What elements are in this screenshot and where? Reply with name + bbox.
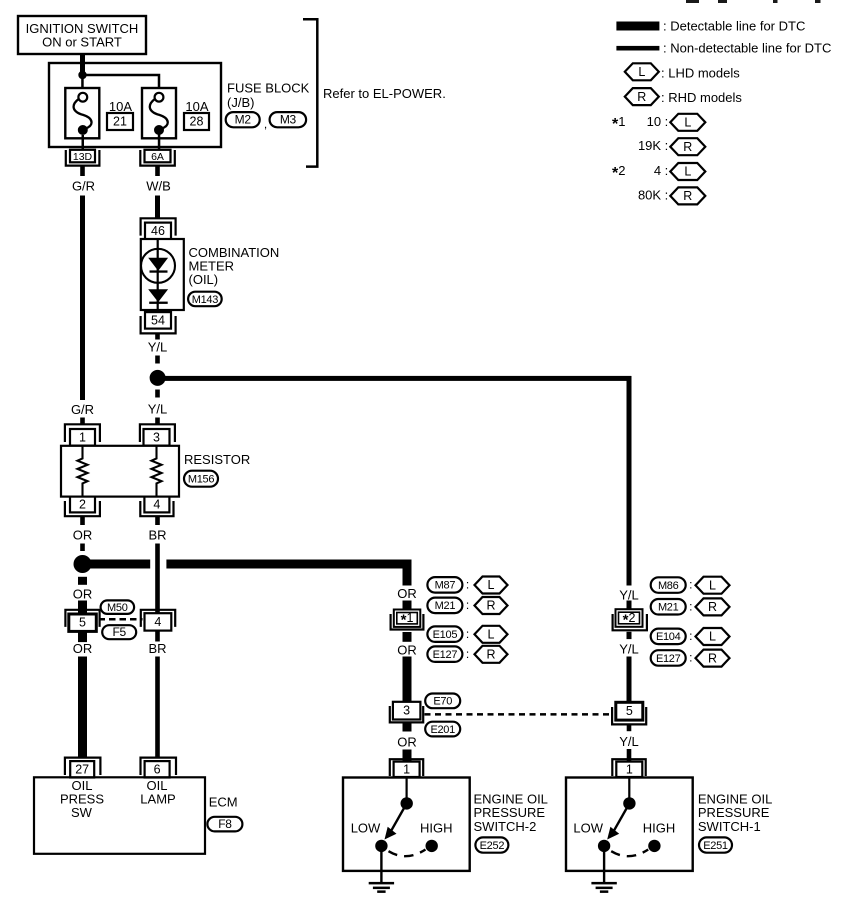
connector 5 (E70/E201 right side) [616, 702, 643, 720]
wire BR resistor to connector 4 (crosses OR line) [155, 544, 160, 614]
wire OR to ECM pin 27 [78, 657, 87, 758]
connector 54 out of combination meter [145, 312, 171, 329]
switch-1 LOW contact dot [598, 840, 610, 852]
svg-text:Y/L: Y/L [148, 340, 168, 355]
connector 3 into resistor [140, 424, 175, 442]
svg-text:10A: 10A [185, 99, 208, 114]
svg-text:M87: M87 [435, 580, 456, 592]
hexagon L (M87 LHD) [475, 577, 508, 594]
connector oval E70 [425, 694, 460, 709]
svg-text:(OIL): (OIL) [189, 272, 219, 287]
wire OR horizontal to middle column (left part) [86, 560, 150, 569]
svg-text:10A: 10A [109, 99, 132, 114]
switch-1 HIGH contact dot [648, 840, 660, 852]
connector 27 into ECM [65, 758, 101, 775]
connector oval E104 [651, 629, 686, 645]
svg-text:ENGINE OIL: ENGINE OIL [474, 791, 548, 806]
connector 6 into ECM [141, 758, 177, 775]
ECM box [34, 777, 205, 854]
wire OR horizontal to middle column (right part) [166, 560, 411, 569]
svg-text:46: 46 [151, 224, 165, 238]
legend: detectable line sample bar [616, 22, 659, 31]
svg-text:28: 28 [190, 115, 204, 129]
wire stub OR below connector 5 [78, 631, 87, 642]
wire dash Y/L below junction [155, 390, 160, 398]
wire junction to fuse 21 [81, 75, 84, 94]
dashed inter-connector line E70/E201 to 5 [425, 713, 431, 716]
wire stub G/R into resistor connector 1 [80, 418, 85, 425]
resistor element R2 (right) [152, 446, 162, 497]
svg-text:PRESSURE: PRESSURE [698, 805, 770, 820]
switch-2 moving contact arrow toward LOW [390, 803, 406, 832]
svg-text:OR: OR [397, 642, 417, 657]
svg-text:M143: M143 [192, 294, 218, 306]
svg-text:54: 54 [151, 313, 165, 327]
svg-text::: : [689, 578, 692, 592]
hexagon R (M21 RHD) [475, 597, 508, 614]
engine oil pressure switch-2 box [343, 778, 470, 871]
wire dash Y/L above junction [155, 356, 160, 364]
svg-text:R: R [708, 600, 717, 614]
connector 5 (M50 side) [65, 610, 99, 627]
svg-text:10 :: 10 : [647, 114, 669, 129]
wire inside meter: pin 46 through lamp to pin 54 [157, 239, 159, 312]
connector oval M50 [101, 600, 135, 614]
wire stub Y/L into connector *2 [627, 601, 632, 612]
svg-text:L: L [684, 116, 691, 130]
svg-text:27: 27 [75, 762, 89, 776]
connector oval M21 [427, 598, 462, 614]
svg-text:M21: M21 [658, 602, 679, 614]
switch-2 pin wire to pivot [406, 778, 408, 799]
svg-text:1: 1 [403, 762, 410, 776]
switch-1 ground wire [603, 846, 605, 883]
wire stub Y/L below *2 [627, 632, 632, 639]
switch-1 pin wire to pivot [628, 778, 630, 799]
switch-1 pivot contact dot [623, 797, 635, 809]
connector oval F5 [102, 625, 136, 639]
resistor element R1 (left) [78, 446, 88, 497]
legend: RHD models hexagon R [625, 88, 659, 105]
svg-text:: LHD models: : LHD models [661, 65, 740, 80]
svg-text:E201: E201 [430, 724, 455, 736]
svg-text:: RHD models: : RHD models [661, 90, 742, 105]
svg-text:OR: OR [73, 586, 93, 601]
wire stub below 13D [80, 166, 85, 176]
svg-text:Y/L: Y/L [619, 734, 639, 749]
connector oval E201 [425, 722, 460, 737]
engine oil pressure switch-1 box [566, 778, 693, 871]
svg-text:Y/L: Y/L [148, 402, 168, 417]
svg-text:E70: E70 [433, 696, 452, 708]
svg-text:LOW: LOW [351, 820, 381, 835]
svg-text::: : [466, 578, 469, 592]
wire OR *1 to connector 3 [403, 657, 412, 702]
svg-text:5: 5 [79, 616, 86, 630]
wire ignition switch to fuse block [80, 54, 85, 75]
wire stub OR below *1 [403, 632, 412, 642]
svg-text:2: 2 [79, 498, 86, 512]
svg-text:M21: M21 [435, 600, 456, 612]
svg-text:: Non-detectable line for DTC: : Non-detectable line for DTC [663, 41, 831, 56]
ground symbol (switch-1) [591, 882, 616, 885]
connector 4 (M50 side) [141, 610, 175, 627]
svg-text:SWITCH-2: SWITCH-2 [474, 819, 537, 834]
wire W/B to combination meter [155, 196, 160, 219]
svg-text:L: L [709, 578, 716, 592]
svg-text:OR: OR [397, 586, 417, 601]
svg-text:E104: E104 [656, 631, 681, 643]
svg-text:E105: E105 [433, 629, 458, 641]
connector oval M156 [184, 471, 218, 487]
wire stub OR into connector *1 [403, 601, 412, 612]
svg-text:F8: F8 [218, 817, 232, 831]
svg-text:BR: BR [148, 528, 166, 543]
oil warning lamp symbol (triangle and bar) [148, 258, 168, 271]
svg-text:G/R: G/R [72, 179, 95, 194]
svg-text:3: 3 [403, 704, 410, 718]
svg-text:PRESSURE: PRESSURE [474, 805, 546, 820]
connector oval M21 (right) [651, 599, 686, 615]
switch-1 moving contact arrow toward LOW [613, 803, 629, 832]
resistor M156 box [61, 446, 179, 497]
svg-text:,: , [264, 117, 267, 131]
svg-text:M50: M50 [107, 602, 128, 614]
fuse 28 (10A) [142, 88, 176, 138]
svg-text:Y/L: Y/L [619, 588, 639, 603]
connector oval M86 [651, 577, 686, 593]
switch-2 HIGH contact dot [426, 840, 438, 852]
svg-text:RESISTOR: RESISTOR [184, 452, 250, 467]
svg-text::: : [689, 599, 692, 613]
svg-text:OR: OR [397, 734, 417, 749]
wire stub Y/L into switch-1 pin 1 [627, 749, 632, 761]
switch-2 pivot contact dot [401, 797, 413, 809]
connector oval M3 [270, 112, 307, 127]
svg-text::: : [466, 598, 469, 612]
connector 13D [66, 150, 100, 166]
legend note 80K RHD hexagon R [670, 187, 705, 204]
wire stub BR below connector 4 [155, 631, 160, 642]
wire Y/L vertical right column [627, 376, 632, 586]
svg-text::: : [689, 629, 692, 643]
wire junction to fuse 28 [83, 75, 160, 94]
hexagon L (E105 LHD) [475, 626, 508, 643]
svg-text:OR: OR [73, 528, 93, 543]
page header text fragments (cut off at top edge) [686, 0, 821, 3]
hexagon R (E127 RHD) [475, 646, 508, 663]
connector oval M87 [427, 577, 462, 593]
svg-text:SW: SW [71, 805, 93, 820]
svg-text:*2: *2 [612, 163, 625, 182]
legend: non-detectable line sample bar [616, 46, 659, 51]
wire Y/L dashed below 54 [155, 333, 160, 339]
svg-text:L: L [638, 65, 645, 79]
svg-text:E127: E127 [656, 653, 681, 665]
svg-text:Y/L: Y/L [619, 641, 639, 656]
svg-text:BR: BR [148, 641, 166, 656]
svg-text::: : [466, 627, 469, 641]
svg-text:4: 4 [153, 498, 160, 512]
connector *2 (double box) [616, 609, 643, 627]
diode symbol [148, 289, 168, 302]
svg-text:R: R [683, 140, 692, 154]
svg-text:*1: *1 [612, 114, 625, 133]
svg-text:HIGH: HIGH [420, 820, 453, 835]
wire thick dash OR below junction [78, 577, 87, 585]
svg-text:ECM: ECM [209, 795, 238, 810]
connector oval E105 [427, 626, 462, 642]
svg-text:ON or START: ON or START [42, 35, 122, 50]
fuse 21 (10A) [65, 88, 99, 138]
svg-text:LOW: LOW [573, 820, 603, 835]
fuse number box 28 [184, 113, 209, 130]
connector *1 (double box) [394, 610, 421, 627]
wire stub below connector 4 [155, 516, 160, 525]
svg-text:4: 4 [154, 615, 161, 629]
svg-text:6: 6 [154, 762, 161, 776]
fuse number box 21 [107, 113, 133, 130]
svg-text:M86: M86 [658, 580, 679, 592]
wire stub Y/L to resistor pin 3 [155, 418, 160, 425]
node Y/L junction dot [150, 370, 166, 386]
switch-2 dashed travel arc [389, 850, 426, 857]
fuse block J/B box [49, 63, 221, 147]
svg-text:1: 1 [626, 762, 633, 776]
svg-text:Refer to EL-POWER.: Refer to EL-POWER. [323, 86, 446, 101]
svg-text:L: L [709, 630, 716, 644]
svg-text:F5: F5 [112, 625, 126, 639]
hexagon R (E127 RHD right) [696, 650, 730, 667]
switch-2 LOW contact dot [375, 840, 387, 852]
svg-text:19K :: 19K : [638, 138, 668, 153]
svg-text:R: R [486, 599, 495, 613]
oil warning lamp symbol (circle) [141, 249, 175, 283]
svg-text:5: 5 [626, 704, 633, 718]
svg-text:LAMP: LAMP [140, 792, 175, 807]
svg-text:L: L [684, 165, 691, 179]
node junction dot inside fuse block [78, 71, 86, 79]
wire OR vertical from horizontal run [403, 560, 412, 586]
svg-text:(J/B): (J/B) [227, 95, 254, 110]
wire Y/L horizontal to right column [163, 376, 631, 381]
svg-text:L: L [488, 628, 495, 642]
svg-text::: : [466, 647, 469, 661]
svg-text:ENGINE OIL: ENGINE OIL [698, 791, 772, 806]
legend note 19K RHD hexagon R [670, 138, 705, 155]
wire BR to ECM pin 6 [155, 657, 160, 758]
svg-text:3: 3 [153, 430, 160, 444]
switch-2 ground wire [380, 846, 382, 883]
ignition switch box [18, 16, 146, 54]
wire G/R to resistor pin 1 [80, 196, 85, 401]
svg-text:W/B: W/B [146, 179, 171, 194]
connector oval E251 [699, 837, 732, 852]
svg-text:M2: M2 [235, 113, 252, 127]
connector 1 into oil pressure switch-1 [612, 759, 645, 776]
hexagon L (E104 LHD) [696, 628, 730, 645]
svg-text:4 :: 4 : [654, 163, 668, 178]
connector 4 out of resistor [144, 497, 169, 513]
svg-text:L: L [488, 578, 495, 592]
svg-text:SWITCH-1: SWITCH-1 [698, 819, 761, 834]
connector 2 out of resistor [70, 497, 95, 513]
wire stub OR below connector 3 [403, 722, 412, 731]
svg-text:1: 1 [79, 430, 86, 444]
wire Y/L *2 to connector 5 [627, 657, 632, 703]
connector oval E127 [427, 646, 462, 662]
connector oval E252 [475, 837, 508, 852]
connector 6A [140, 150, 175, 166]
dashed mating line M50/F5 [99, 618, 106, 621]
connector oval E127 (right) [651, 650, 686, 666]
hexagon L (M86 LHD) [696, 577, 730, 594]
connector 1 into oil pressure switch-2 [390, 759, 423, 776]
wire stub OR into switch-2 pin 1 [403, 750, 412, 762]
wire stub Y/L below connector 5 [627, 724, 632, 731]
wire stub below connector 2 [80, 516, 85, 525]
svg-text:13D: 13D [73, 151, 93, 163]
svg-text:R: R [683, 189, 692, 203]
svg-text:21: 21 [113, 115, 127, 129]
svg-text:R: R [708, 651, 717, 665]
ground symbol (switch-2) [369, 882, 394, 885]
connector 1 into resistor [65, 424, 100, 442]
wire stub OR into connector 5 [78, 601, 87, 615]
connector oval F8 [207, 817, 242, 832]
svg-text:E252: E252 [480, 840, 505, 852]
svg-text:M3: M3 [280, 113, 297, 127]
wire stub below 6A [155, 166, 160, 176]
svg-text:OR: OR [73, 641, 93, 656]
svg-text:R: R [486, 648, 495, 662]
connector oval M2 [226, 112, 260, 127]
combination meter box [141, 239, 184, 310]
connector 3 (E70/E201) [393, 702, 421, 720]
wire fuse 21 to connector 13D [82, 135, 85, 150]
svg-text:FUSE BLOCK: FUSE BLOCK [227, 81, 310, 96]
svg-text:G/R: G/R [71, 402, 94, 417]
hexagon R (M21 RHD right) [696, 598, 730, 615]
bracket refer to EL-POWER [303, 19, 317, 166]
connector oval M143 [188, 292, 222, 307]
svg-text:: Detectable line for DTC: : Detectable line for DTC [663, 19, 805, 34]
svg-text:E251: E251 [703, 840, 728, 852]
wire dash OR above junction [80, 544, 85, 552]
legend note *2 LHD hexagon L [670, 163, 705, 180]
svg-text:E127: E127 [433, 649, 458, 661]
legend note *1 LHD hexagon L [670, 114, 705, 131]
svg-text:M156: M156 [188, 474, 214, 486]
svg-text:80K :: 80K : [638, 187, 668, 202]
svg-text:6A: 6A [151, 151, 164, 163]
wire fuse 28 to connector 6A [158, 134, 161, 150]
connector 46 into combination meter [141, 218, 176, 235]
svg-text:R: R [637, 90, 646, 104]
svg-text:HIGH: HIGH [643, 820, 676, 835]
node OR junction dot [74, 555, 92, 573]
svg-text::: : [689, 651, 692, 665]
switch-1 dashed travel arc [611, 850, 648, 857]
legend: LHD models hexagon L [625, 63, 659, 80]
